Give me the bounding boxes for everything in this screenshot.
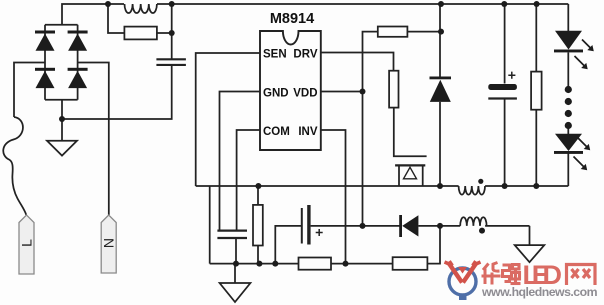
wire C1 top lead — [171, 4, 173, 59]
LED2 — [554, 134, 583, 154]
bridge diode D1a — [35, 31, 55, 51]
LED2 arrows — [574, 138, 589, 168]
ground GND1 — [47, 119, 77, 156]
ground GND2 — [220, 264, 251, 302]
watermark text 华 — [482, 263, 501, 285]
LED string top lead — [567, 4, 569, 186]
wire DRV feed vertical — [363, 32, 378, 226]
svg-text:INV: INV — [298, 126, 318, 138]
wire R7 right lead — [407, 31, 441, 33]
bridge diode D1b — [68, 31, 88, 51]
watermark logo — [445, 261, 481, 300]
watermark text 网 — [567, 265, 596, 286]
LED1 arrows — [575, 40, 592, 68]
wire top rail — [62, 4, 568, 25]
polarity dot L2 — [478, 179, 483, 184]
watermark text 强 — [503, 265, 521, 284]
inductor L2 — [459, 186, 485, 195]
resistor R6 leads — [535, 4, 537, 186]
capacitor C2 leads — [275, 226, 400, 264]
label C3 plus — [508, 72, 515, 79]
svg-text:VDD: VDD — [293, 88, 317, 100]
wire ground rail drop — [209, 186, 211, 264]
bridge diode D1d — [68, 68, 88, 88]
LED1 — [554, 31, 583, 53]
resistor R3 — [253, 205, 263, 246]
wire GND pin — [220, 92, 261, 231]
diode D2 — [399, 215, 418, 237]
inductor L1 — [124, 4, 156, 13]
mosfet Q1 — [395, 165, 425, 186]
wire INV — [321, 130, 346, 264]
resistor R7 top — [378, 27, 408, 37]
capacitor C1 — [156, 59, 186, 65]
svg-text:GND: GND — [263, 88, 289, 100]
capacitor C4 — [217, 231, 247, 238]
bridge rectifier outline — [45, 25, 78, 100]
resistor R1 — [124, 27, 156, 40]
svg-text:DRV: DRV — [293, 49, 317, 61]
svg-text:M8914: M8914 — [270, 11, 314, 27]
svg-text:L: L — [19, 239, 35, 247]
wire D2 line (wire2) — [418, 225, 529, 227]
resistor R6 — [531, 72, 542, 110]
resistor R1 leads — [108, 4, 172, 33]
resistor R2 — [389, 71, 398, 108]
ground GND3 — [515, 226, 545, 262]
wire COM pin — [237, 130, 260, 230]
wire L input — [14, 63, 45, 118]
wire C4 bottom lead — [235, 238, 237, 264]
resistor R3 leads — [257, 186, 259, 264]
wire DRV — [321, 53, 394, 71]
capacitor C2 plates — [301, 208, 303, 244]
wire bottom ground rail — [210, 226, 440, 264]
resistor R5 — [393, 257, 428, 270]
inductor L3 — [460, 217, 486, 226]
svg-text:N: N — [101, 238, 117, 248]
capacitor C3 leads — [504, 4, 506, 186]
polarity dot L3 — [479, 228, 485, 234]
resistor R4 — [299, 258, 332, 270]
wire sense line (wire1) — [196, 185, 569, 187]
diode D1 vertical lead — [439, 4, 441, 186]
terminal N — [101, 215, 116, 273]
wire N input — [78, 63, 109, 216]
wire bridge bottom stub — [61, 100, 63, 119]
wire gate lead — [394, 108, 427, 157]
svg-text:SEN: SEN — [263, 49, 287, 61]
label C2 plus — [316, 229, 323, 236]
fuse F1 — [3, 117, 26, 215]
svg-text:www.hqlednews.com: www.hqlednews.com — [481, 285, 598, 299]
IC U1 M8914 — [260, 31, 321, 150]
LED ellipsis dots — [565, 86, 572, 129]
diode D1 — [430, 77, 452, 102]
capacitor C3 — [488, 84, 517, 99]
bridge diode D1c — [35, 68, 55, 88]
wire C1 bottom lead to bridge bottom — [62, 65, 172, 119]
wire VDD — [321, 91, 363, 93]
wire SEN — [196, 53, 260, 186]
svg-text:COM: COM — [263, 126, 290, 138]
terminal L — [19, 215, 34, 274]
